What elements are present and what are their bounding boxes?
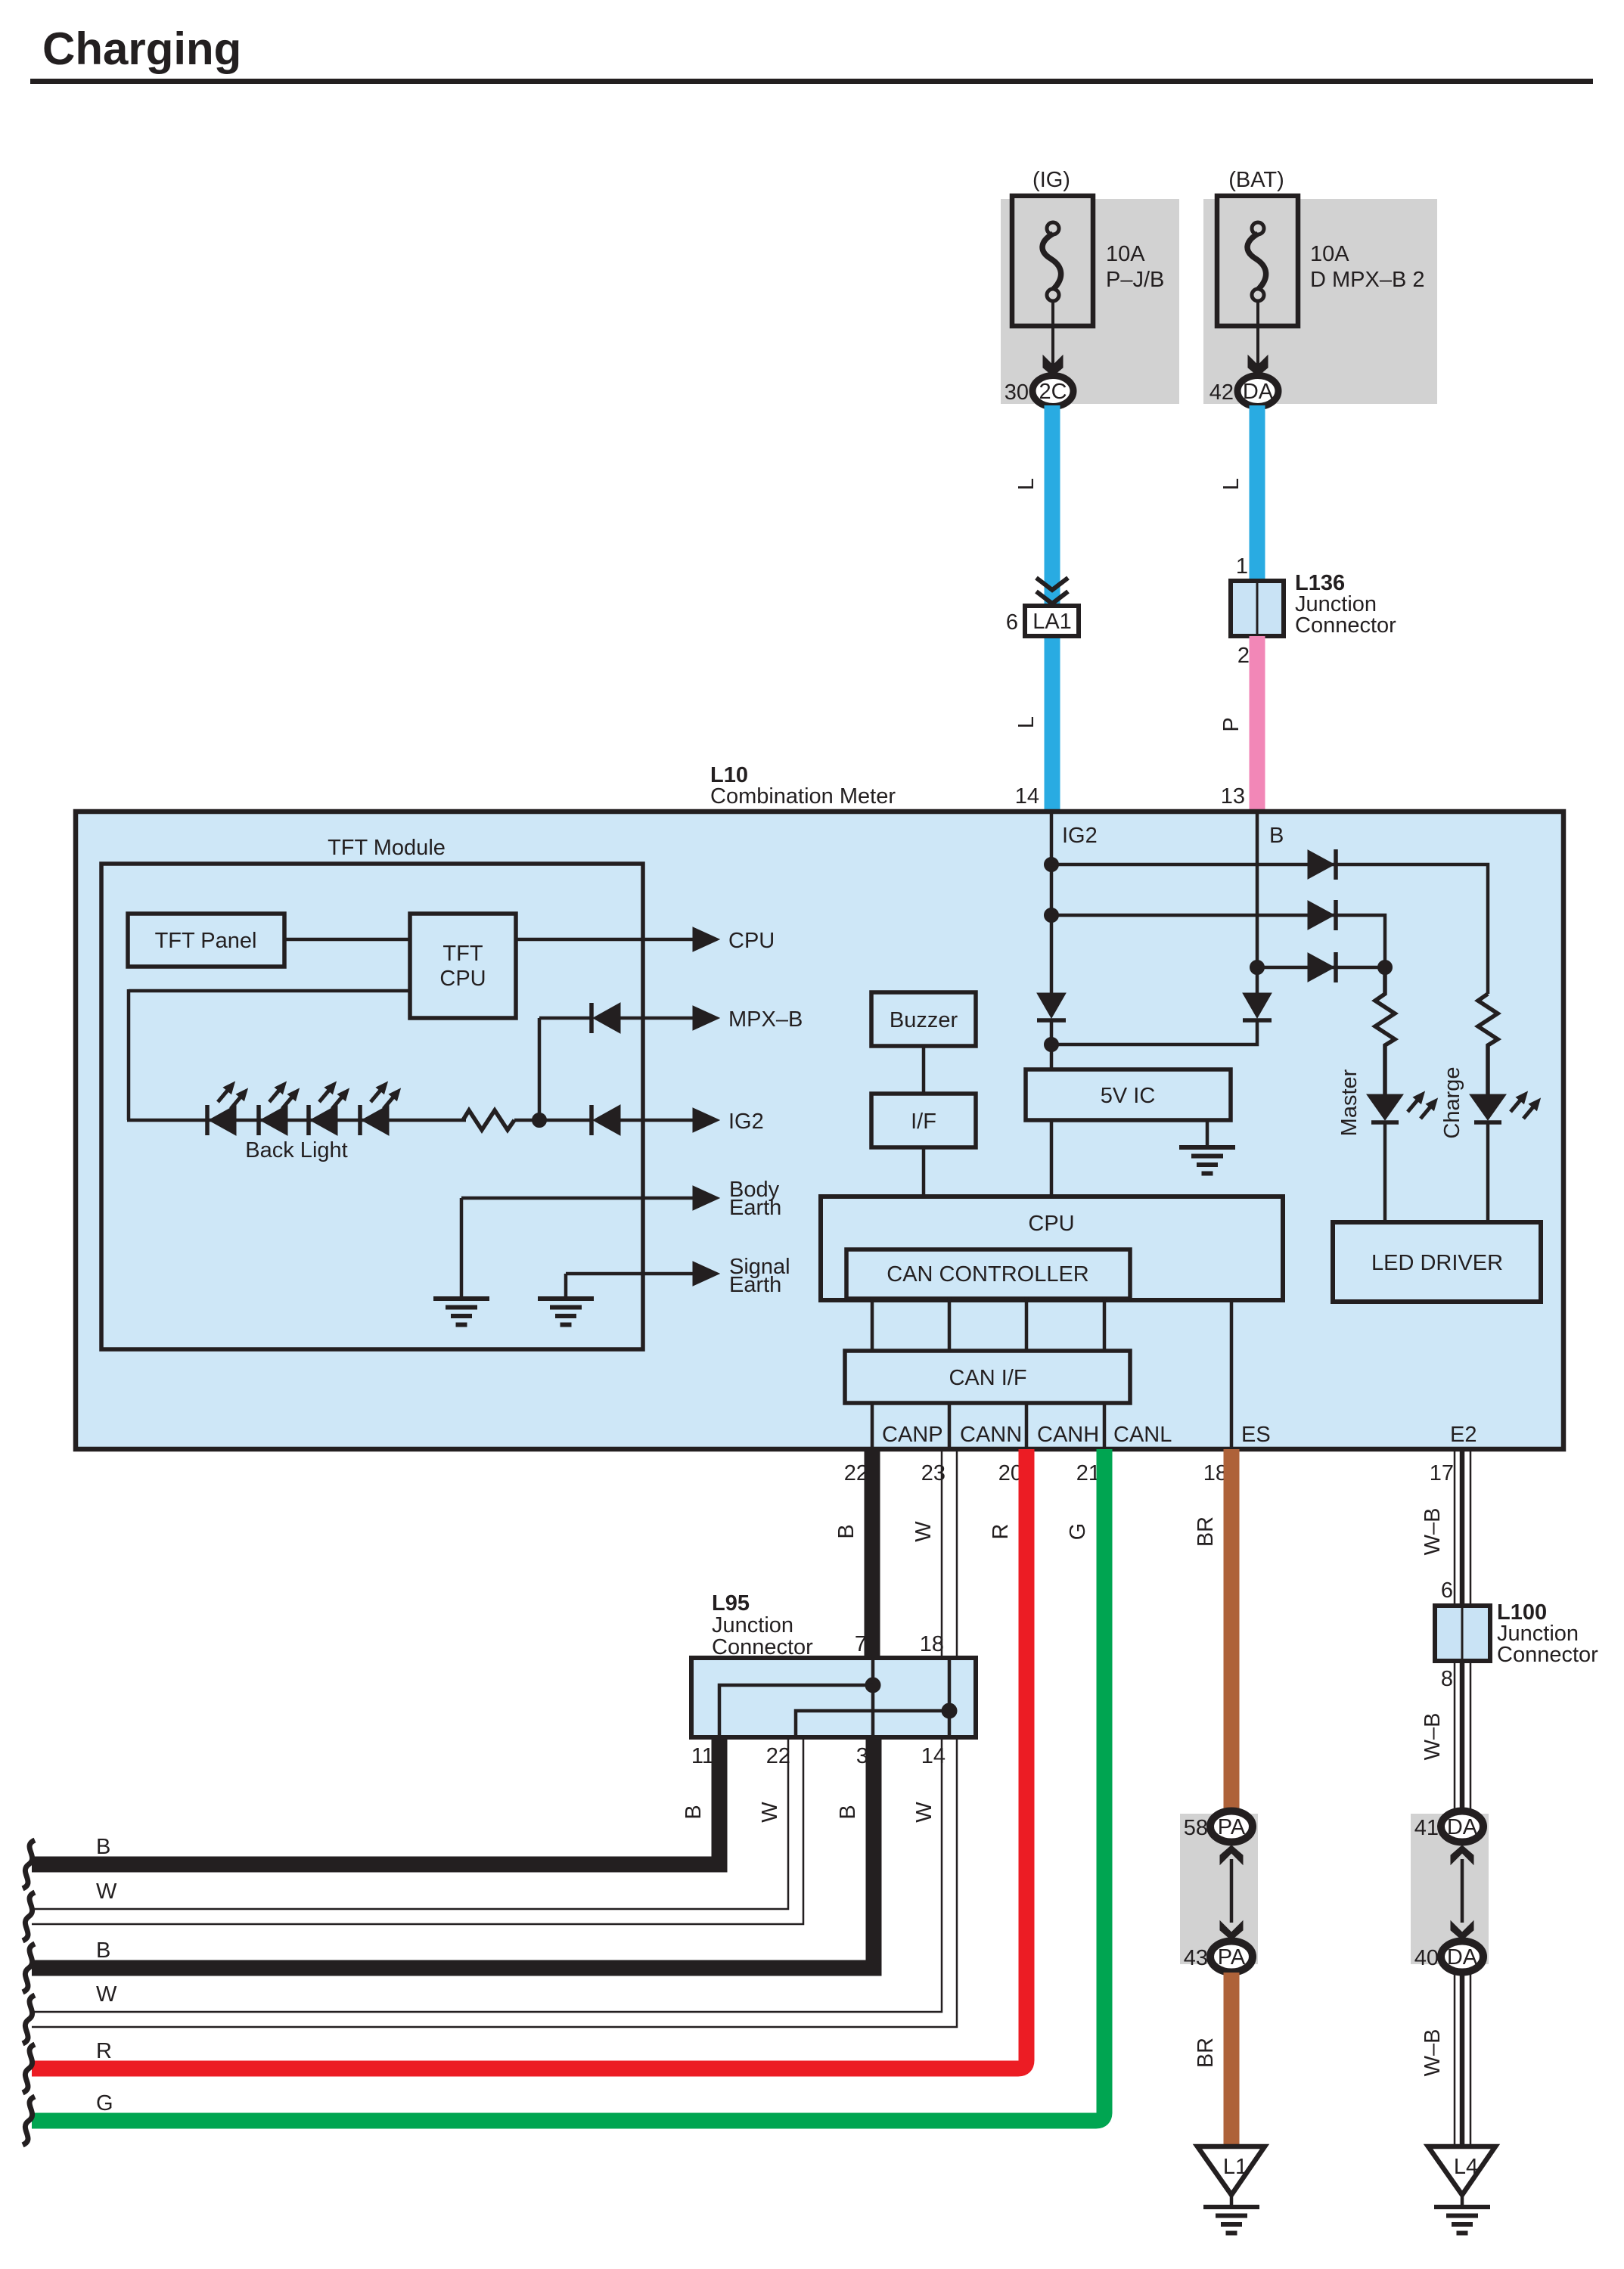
- title underline: [30, 79, 1593, 84]
- svg-text:CPU: CPU: [728, 929, 775, 953]
- back light LED D1: [207, 1078, 253, 1135]
- svg-text:43: 43: [1184, 1946, 1208, 1970]
- connector oval PA upper: [1210, 1811, 1253, 1842]
- arrow to IG2: [693, 1108, 719, 1132]
- back light LED D2: [259, 1078, 304, 1135]
- connector DA grey block: [1411, 1814, 1489, 1964]
- wire row2 to master column: [1051, 915, 1385, 967]
- wire to LED chain: [127, 1119, 466, 1122]
- svg-text:G: G: [1066, 1523, 1090, 1541]
- continuation squiggle W2: [23, 1995, 35, 2044]
- L95 internal node 1: [865, 1678, 880, 1693]
- svg-text:B: B: [1269, 824, 1284, 848]
- wire TFT CPU to back light branch: [129, 989, 410, 993]
- svg-text:CANL: CANL: [1113, 1423, 1172, 1447]
- wire resistor to node: [514, 1119, 592, 1122]
- ground body earth: [433, 1299, 489, 1325]
- svg-text:(BAT): (BAT): [1228, 168, 1284, 192]
- combination meter L10 box: [76, 812, 1563, 1449]
- L95 internal branch to pin 22: [796, 1711, 949, 1735]
- connector oval PA lower: [1210, 1942, 1253, 1973]
- fuse F1 arrow into connector: [1043, 355, 1063, 376]
- svg-text:14: 14: [1015, 784, 1039, 809]
- svg-text:42: 42: [1209, 380, 1234, 405]
- wire W (white) CANN pin 23 to L95 pin 18: [941, 1449, 943, 1658]
- wire row1 to charge column: [1051, 864, 1488, 994]
- connector arrow up DA: [1451, 1845, 1473, 1864]
- arrow to signal earth: [693, 1262, 719, 1286]
- continuation squiggle R: [23, 2044, 35, 2093]
- svg-text:R: R: [989, 1524, 1013, 1540]
- continuation squiggle B1: [23, 1840, 35, 1889]
- wire body earth: [461, 1197, 694, 1200]
- wire arrow chevrons above LA1: [1036, 578, 1068, 604]
- fuse F2 10A D MPX-B 2 body: [1217, 196, 1298, 326]
- connector arrow down: [1220, 1921, 1243, 1940]
- svg-text:LED DRIVER: LED DRIVER: [1371, 1251, 1503, 1275]
- wire back light feed down: [127, 989, 131, 1120]
- wire I/F to CPU: [922, 1147, 926, 1198]
- wire CANP pin: [871, 1403, 874, 1447]
- junction node IG2 row1: [1045, 858, 1059, 872]
- ground triangle L4: [1428, 2146, 1495, 2195]
- diode MPX-B: [592, 1003, 620, 1033]
- svg-text:W: W: [96, 1982, 117, 2007]
- junction connector L100: [1435, 1606, 1490, 1661]
- svg-text:Charging: Charging: [42, 23, 241, 74]
- resistor master: [1375, 967, 1395, 1094]
- ground triangle L1: [1197, 2146, 1265, 2195]
- svg-text:Connector: Connector: [1295, 613, 1396, 638]
- svg-text:Combination Meter: Combination Meter: [710, 784, 896, 809]
- svg-text:IG2: IG2: [728, 1110, 764, 1134]
- svg-text:Junction: Junction: [712, 1613, 793, 1637]
- wire CANP link: [871, 1297, 874, 1351]
- wire B internal: [1256, 814, 1259, 993]
- svg-text:1: 1: [1236, 554, 1248, 579]
- ground L4 stem: [1461, 2195, 1464, 2207]
- svg-text:W: W: [912, 1802, 936, 1823]
- svg-text:CANH: CANH: [1037, 1423, 1099, 1447]
- L95 internal wire pin18 to pin14: [948, 1660, 952, 1735]
- wire B (black) CANP pin 22 to L95 pin 7: [865, 1449, 880, 1658]
- svg-text:L1: L1: [1223, 2155, 1247, 2179]
- LED DRIVER box: [1333, 1222, 1541, 1302]
- svg-text:Earth: Earth: [729, 1196, 781, 1220]
- diode IG2 backlight: [592, 1105, 620, 1135]
- svg-text:L: L: [1219, 478, 1244, 490]
- svg-text:IG2: IG2: [1062, 824, 1098, 848]
- ground signal earth: [538, 1299, 594, 1325]
- wire 5V IC to CPU: [1050, 1120, 1054, 1198]
- CAN CONTROLLER box: [846, 1249, 1130, 1299]
- svg-text:I/F: I/F: [911, 1110, 936, 1134]
- continuation squiggle G: [23, 2097, 35, 2145]
- arrow to CPU: [693, 927, 719, 951]
- fuse F2 output lead: [1256, 301, 1259, 368]
- CPU box: [821, 1197, 1283, 1300]
- wire CANL pin: [1103, 1403, 1107, 1447]
- arrow to body earth: [693, 1186, 719, 1210]
- svg-text:PA: PA: [1218, 1945, 1246, 1969]
- svg-text:G: G: [96, 2091, 113, 2115]
- svg-text:MPX–B: MPX–B: [728, 1007, 803, 1032]
- svg-text:CAN I/F: CAN I/F: [949, 1366, 1026, 1390]
- wire P (pink) from L136 to meter pin 13: [1250, 636, 1265, 812]
- wire W-B DA to ground L4: [1455, 1973, 1470, 2146]
- L95 internal wire pin7 to pin3: [871, 1660, 875, 1735]
- svg-text:DA: DA: [1447, 1945, 1478, 1969]
- svg-text:DA: DA: [1447, 1815, 1478, 1839]
- svg-text:Buzzer: Buzzer: [890, 1008, 958, 1032]
- diode IG2 down: [1037, 993, 1066, 1020]
- connector arrow up: [1220, 1845, 1243, 1864]
- svg-text:E2: E2: [1450, 1423, 1477, 1447]
- svg-text:L: L: [1014, 478, 1039, 490]
- svg-text:W: W: [911, 1521, 936, 1542]
- connector 6 LA1 box: [1025, 606, 1079, 636]
- junction node B row3: [1250, 961, 1265, 975]
- wire to MPX-B diode: [539, 1017, 592, 1020]
- diode row1: [1308, 849, 1336, 880]
- junction node above 5V IC: [1045, 1038, 1059, 1052]
- wire BR (brown) PA to ground L1: [1224, 1973, 1240, 2146]
- ground L1 stem: [1230, 2195, 1234, 2207]
- svg-text:CAN CONTROLLER: CAN CONTROLLER: [887, 1262, 1089, 1287]
- wire ES pin: [1230, 1300, 1234, 1447]
- LED charge: [1470, 1088, 1545, 1122]
- junction node back light: [533, 1113, 547, 1128]
- svg-text:L4: L4: [1454, 2155, 1478, 2179]
- resistor back light: [463, 1110, 514, 1130]
- ground L4 bars: [1434, 2207, 1490, 2233]
- svg-text:L95: L95: [712, 1591, 750, 1616]
- wire CANH link: [1025, 1297, 1029, 1351]
- wire W (white) L95 pin 14 down and left: [32, 1737, 942, 2012]
- svg-text:ES: ES: [1241, 1423, 1271, 1447]
- wire CANN link: [948, 1297, 952, 1351]
- svg-text:41: 41: [1414, 1816, 1439, 1840]
- svg-text:13: 13: [1221, 784, 1245, 809]
- L95 internal node 2: [942, 1703, 957, 1718]
- wire G (green) CANL pin 21 down and left: [32, 1449, 1104, 2121]
- wire W-B E2 pin 17 to junction L100: [1455, 1449, 1470, 1606]
- svg-text:B: B: [836, 1805, 860, 1819]
- wire W-B L100 to connector DA: [1455, 1661, 1470, 1814]
- diode row2: [1308, 900, 1336, 930]
- svg-text:Charge: Charge: [1440, 1066, 1464, 1138]
- svg-text:CPU: CPU: [439, 967, 486, 991]
- wire B (black) L95 pin 3 down and left: [32, 1737, 874, 1968]
- wire row3: [1257, 966, 1385, 970]
- svg-text:W: W: [96, 1879, 117, 1904]
- LED master: [1367, 1088, 1442, 1122]
- svg-text:PA: PA: [1218, 1815, 1246, 1839]
- Buzzer box: [871, 992, 976, 1046]
- fuse panel (IG) grey block: [1001, 199, 1179, 404]
- svg-text:L: L: [1014, 716, 1039, 728]
- wire diode to MPX-B output: [620, 1017, 694, 1020]
- svg-text:17: 17: [1430, 1461, 1454, 1485]
- wire CANH pin: [1025, 1403, 1029, 1447]
- svg-text:7: 7: [855, 1632, 867, 1656]
- wire L (blue) from fuse DA to junction L136: [1250, 405, 1265, 581]
- svg-text:2C: 2C: [1039, 380, 1067, 404]
- TFT CPU box: [410, 914, 516, 1018]
- fuse F1 10A P-J/B body: [1012, 196, 1093, 326]
- svg-text:BR: BR: [1194, 1516, 1218, 1547]
- diode B down: [1243, 993, 1272, 1020]
- wire diode to IG2 output: [620, 1119, 694, 1122]
- wire charge LED to LED driver: [1486, 1122, 1490, 1222]
- wire buzzer to I/F: [922, 1046, 926, 1094]
- fuse F2 arrow into connector: [1248, 355, 1268, 376]
- svg-text:6: 6: [1441, 1578, 1453, 1603]
- connector link line: [1230, 1859, 1234, 1923]
- continuation squiggle W1: [23, 1892, 35, 1941]
- svg-text:TFT: TFT: [442, 942, 483, 966]
- svg-text:30: 30: [1005, 380, 1029, 405]
- junction node master column: [1378, 961, 1393, 975]
- resistor charge: [1478, 994, 1498, 1094]
- svg-text:58: 58: [1184, 1816, 1208, 1840]
- svg-text:Earth: Earth: [729, 1273, 781, 1297]
- svg-text:22: 22: [766, 1744, 790, 1768]
- svg-text:D MPX–B 2: D MPX–B 2: [1310, 268, 1425, 292]
- wire down to ground 1: [460, 1198, 464, 1299]
- svg-text:B: B: [834, 1524, 859, 1538]
- connector oval DA lower: [1441, 1942, 1483, 1973]
- wire down to ground 2: [564, 1274, 568, 1299]
- svg-text:B: B: [96, 1938, 110, 1963]
- junction connector L136: [1231, 581, 1284, 636]
- svg-text:5V IC: 5V IC: [1101, 1084, 1156, 1108]
- svg-text:W–B: W–B: [1421, 1508, 1445, 1556]
- fuse F1 output lead: [1051, 301, 1054, 368]
- svg-text:W–B: W–B: [1421, 2029, 1445, 2077]
- svg-text:6: 6: [1006, 610, 1018, 635]
- svg-text:11: 11: [691, 1744, 714, 1768]
- L95 internal branch to pin 11: [719, 1685, 873, 1735]
- junction connector L95 box: [691, 1658, 976, 1737]
- wire master LED to LED driver: [1383, 1122, 1387, 1222]
- svg-text:B: B: [682, 1805, 706, 1819]
- svg-text:40: 40: [1414, 1946, 1439, 1970]
- wire L (blue) from fuse 2C to meter pin 14: [1045, 405, 1060, 812]
- wire signal earth: [566, 1272, 694, 1276]
- svg-text:CPU: CPU: [1028, 1212, 1074, 1236]
- svg-text:TFT Panel: TFT Panel: [155, 929, 257, 953]
- svg-text:B: B: [96, 1835, 110, 1859]
- ground L1 bars: [1203, 2207, 1259, 2233]
- connector arrow down DA: [1451, 1921, 1473, 1940]
- svg-text:8: 8: [1441, 1667, 1453, 1691]
- svg-text:(IG): (IG): [1032, 168, 1070, 192]
- svg-text:Back Light: Back Light: [245, 1138, 347, 1162]
- svg-text:R: R: [96, 2039, 112, 2063]
- wire CANL link: [1103, 1297, 1107, 1351]
- connector PA grey block: [1180, 1814, 1258, 1964]
- svg-text:18: 18: [920, 1632, 944, 1656]
- wire TFT CPU to CPU output: [516, 938, 694, 942]
- diode row3: [1308, 952, 1336, 982]
- svg-text:W–B: W–B: [1421, 1713, 1445, 1761]
- arrow to MPX-B: [693, 1006, 719, 1030]
- svg-text:W: W: [758, 1802, 782, 1823]
- wire B (black) L95 pin 11 down and left: [32, 1737, 719, 1864]
- svg-text:DA: DA: [1243, 380, 1274, 404]
- back light LED D4: [360, 1078, 405, 1135]
- connector oval DA: [1237, 376, 1278, 407]
- fuse panel (BAT) grey block: [1203, 199, 1437, 404]
- wire CANN pin: [948, 1403, 952, 1447]
- junction node IG2 row2: [1045, 908, 1059, 923]
- wire B diode to node: [1051, 1020, 1257, 1044]
- wire 5V IC ground stub: [1206, 1120, 1209, 1147]
- wire node up to MPX-B diode: [538, 1018, 542, 1120]
- connector link line DA: [1461, 1859, 1464, 1923]
- wire W (white) L95 pin 22 down and left: [32, 1737, 788, 1909]
- svg-text:Connector: Connector: [1497, 1643, 1598, 1667]
- 5V IC box: [1026, 1069, 1231, 1120]
- wire R (red) CANH pin 20 down and left: [32, 1449, 1026, 2069]
- svg-text:P: P: [1219, 717, 1244, 731]
- wire IG2 internal: [1050, 814, 1054, 993]
- back light LED D3: [309, 1078, 354, 1135]
- svg-text:10A: 10A: [1106, 242, 1145, 266]
- ground 5V IC: [1179, 1147, 1235, 1174]
- svg-text:TFT Module: TFT Module: [328, 836, 446, 860]
- connector oval 2C: [1032, 376, 1073, 407]
- wire IG2 diode to 5V IC: [1050, 1020, 1054, 1069]
- svg-text:CANN: CANN: [960, 1423, 1022, 1447]
- wire TFT Panel to TFT CPU: [284, 938, 410, 942]
- wire BR (brown) ES pin 18 to connector PA: [1224, 1449, 1240, 1814]
- connector oval DA upper: [1441, 1811, 1483, 1842]
- svg-text:10A: 10A: [1310, 242, 1349, 266]
- CAN I/F box: [845, 1351, 1130, 1403]
- svg-text:BR: BR: [1194, 2038, 1218, 2068]
- svg-text:LA1: LA1: [1032, 610, 1072, 634]
- svg-text:Master: Master: [1337, 1069, 1362, 1136]
- TFT Panel box: [128, 914, 284, 967]
- I/F box: [871, 1094, 976, 1147]
- TFT Module box: [101, 864, 643, 1349]
- svg-text:2: 2: [1237, 644, 1250, 668]
- svg-text:P–J/B: P–J/B: [1106, 268, 1164, 292]
- svg-text:CANP: CANP: [882, 1423, 943, 1447]
- continuation squiggle B2: [23, 1944, 35, 1992]
